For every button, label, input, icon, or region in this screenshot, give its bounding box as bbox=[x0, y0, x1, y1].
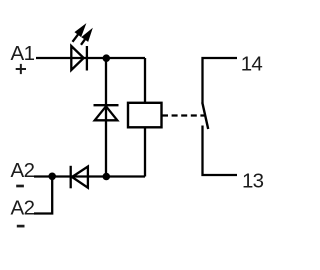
protection diode D3 bbox=[71, 166, 88, 189]
wire top to relay coil bbox=[144, 58, 146, 103]
node junction top bbox=[103, 54, 111, 62]
svg-text:A2: A2 bbox=[11, 159, 35, 182]
svg-text:14: 14 bbox=[241, 52, 263, 75]
wire vertical through flyback diode bbox=[105, 58, 107, 177]
relay coil K1 bbox=[128, 103, 162, 128]
minus sign 2 bbox=[17, 225, 25, 228]
wire A2 second terminal bbox=[34, 177, 52, 214]
wire contact 14 bbox=[203, 58, 238, 103]
contact blade NO switch bbox=[202, 103, 208, 130]
LED D1 bbox=[71, 46, 87, 71]
plus sign bbox=[16, 64, 26, 74]
wire contact 13 bbox=[203, 126, 238, 176]
node junction bottom mid bbox=[103, 173, 111, 181]
wire A2 bottom horizontal bbox=[34, 175, 145, 177]
node junction bottom left bbox=[48, 173, 56, 181]
wire A1 horizontal top bbox=[36, 57, 145, 59]
svg-text:A1: A1 bbox=[11, 42, 35, 65]
svg-text:A2: A2 bbox=[11, 197, 35, 220]
wire relay coil bottom lead bbox=[144, 127, 146, 177]
mechanical linkage dashed bbox=[162, 114, 205, 116]
LED light arrow 1 bbox=[73, 25, 86, 42]
svg-text:13: 13 bbox=[242, 170, 264, 193]
minus sign 1 bbox=[16, 185, 24, 188]
flyback diode D2 bbox=[94, 105, 119, 120]
LED light arrow 2 bbox=[81, 29, 92, 45]
